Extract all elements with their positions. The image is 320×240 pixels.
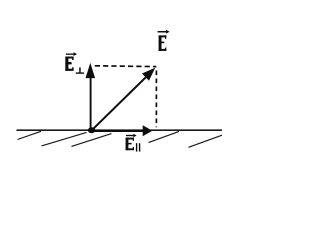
vector E-perpendicular (vertical arrow) xyxy=(86,63,96,130)
vector E (diagonal arrow) xyxy=(92,68,155,130)
node dot (origin) xyxy=(88,127,95,133)
hatch 5 xyxy=(189,135,223,147)
dashed construction line top xyxy=(95,65,157,68)
label E-perp: arrow over E xyxy=(65,52,84,74)
hatch 4 xyxy=(149,131,180,142)
label E-parallel: arrow over E, below axis xyxy=(126,134,141,152)
perp subscript xyxy=(76,72,84,73)
surface line xyxy=(17,129,223,131)
hatch 3 xyxy=(72,134,112,147)
hatch 2 xyxy=(42,132,87,146)
E glyph xyxy=(65,57,73,71)
parallel bars subscript xyxy=(136,143,137,151)
label E (top): arrow over E xyxy=(158,30,170,51)
vector E-parallel (horizontal arrow) xyxy=(92,125,152,136)
dashed construction line right xyxy=(155,71,157,128)
hatch 1 xyxy=(18,131,42,139)
